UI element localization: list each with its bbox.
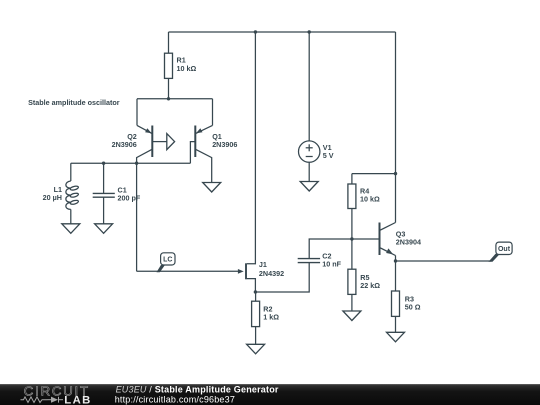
svg-text:2N3906: 2N3906 [212, 140, 237, 149]
resistor R3 [392, 291, 400, 316]
svg-text:Stable amplitude oscillator: Stable amplitude oscillator [28, 98, 120, 107]
inductor L1 [66, 181, 79, 209]
wire J1 gate [137, 270, 239, 272]
svg-text:10 nF: 10 nF [322, 259, 341, 268]
svg-text:5 V: 5 V [323, 151, 334, 160]
ground below C1 [95, 224, 113, 234]
wire Q1 emitter drop [212, 99, 214, 126]
wire Q3 collector drop [395, 174, 397, 223]
svg-text:10 kΩ: 10 kΩ [177, 64, 197, 73]
wire R2 bottom lead [255, 327, 257, 345]
wire J1 source down [247, 279, 256, 292]
ground below L1 [62, 224, 80, 234]
wire C1 bottom lead [103, 197, 105, 224]
svg-text:EU3EU / Stable Amplitude Gener: EU3EU / Stable Amplitude Generator [116, 384, 279, 394]
resistor R4 [348, 184, 356, 209]
ground below R5 [343, 311, 361, 321]
footer title [115, 384, 279, 404]
CircuitLab logo [21, 383, 92, 405]
wire LC tank rail [71, 162, 191, 164]
J1 gate arrow [238, 269, 244, 274]
svg-text:2N3904: 2N3904 [396, 238, 421, 247]
wire top power rail [169, 31, 396, 33]
wire Q1 base link [190, 142, 195, 164]
svg-text:10 kΩ: 10 kΩ [360, 195, 380, 204]
wire R4 feed [352, 173, 396, 175]
svg-text:50 Ω: 50 Ω [405, 302, 421, 311]
node J1 drain / rail [254, 30, 257, 33]
wire V1 top lead [308, 32, 310, 141]
node J1 source / R2 [254, 290, 257, 293]
wire C1 top lead [103, 163, 105, 193]
ground below R3 [387, 332, 405, 342]
wire R1 top lead [168, 32, 170, 53]
wire Q2 emitter drop [136, 99, 138, 126]
Q3 emitter arrow [386, 248, 393, 254]
wire R3 top lead [395, 261, 397, 291]
svg-text:20 µH: 20 µH [43, 193, 62, 202]
net flag Out [489, 242, 513, 262]
svg-text:http://circuitlab.com/c96be37: http://circuitlab.com/c96be37 [115, 394, 235, 404]
node R1 / emitter rail [167, 97, 170, 100]
capacitor C2 [298, 259, 320, 263]
wire R5 bottom lead [351, 294, 353, 311]
wire R2 top lead [255, 292, 257, 301]
node LC drop [135, 162, 138, 165]
node C1 / tank rail [102, 162, 105, 165]
node V1 / rail [308, 30, 311, 33]
node dots [102, 30, 397, 293]
wire L1 bottom lead [70, 209, 72, 223]
resistor R2 [252, 301, 260, 326]
net flag LC [157, 253, 176, 272]
transistor Q3 [380, 223, 396, 256]
wire R5 top lead [351, 239, 353, 269]
wire J1 drain up [247, 32, 256, 264]
wire V1 bottom lead [308, 162, 310, 181]
svg-text:Out: Out [498, 246, 511, 253]
svg-text:LAB: LAB [64, 394, 91, 405]
ground below R2 [247, 344, 265, 354]
svg-text:2N3906: 2N3906 [112, 140, 137, 149]
transistor Q1 [195, 125, 212, 182]
resistor R1 [165, 53, 173, 78]
ground below V1 [300, 182, 318, 192]
wire Out [396, 260, 492, 262]
svg-text:J1: J1 [259, 260, 267, 269]
ground below Q1 [203, 183, 221, 193]
wire Q3 emitter node [395, 256, 397, 262]
Q1 emitter arrow [196, 128, 203, 133]
wire R3 bottom lead [395, 316, 397, 332]
resistor R5 [348, 269, 356, 294]
wire source to C2 [255, 263, 309, 292]
capacitor C1 [93, 193, 115, 197]
svg-text:1 kΩ: 1 kΩ [263, 312, 279, 321]
node R4 / Q3 base [350, 237, 353, 240]
wire C2 to Q3 base [309, 239, 379, 259]
Q2 base open arrow [167, 134, 175, 150]
svg-text:200 pF: 200 pF [118, 194, 141, 203]
wire R4 top lead [351, 174, 353, 184]
wire R1 bottom lead [168, 78, 170, 98]
wire R4 bottom lead [351, 209, 353, 240]
transistor Q2 [137, 125, 167, 163]
wire V+ drop [395, 32, 397, 174]
node Q3 emitter / Out [394, 259, 397, 262]
svg-text:LC: LC [163, 257, 172, 264]
voltage source V1 [299, 141, 320, 162]
node V+ / R4 [394, 172, 397, 175]
svg-text:2N4392: 2N4392 [259, 269, 284, 278]
wire emitter rail [137, 98, 213, 100]
wire L1 top lead [70, 163, 72, 181]
wire LC node drop [136, 163, 138, 271]
JFET J1 [245, 263, 247, 279]
Q2 emitter arrow [145, 128, 152, 133]
svg-text:22 kΩ: 22 kΩ [360, 281, 380, 290]
